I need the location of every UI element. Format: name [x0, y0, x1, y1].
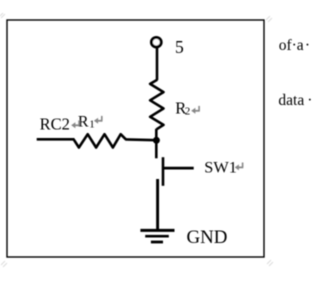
svg-text:GND: GND	[187, 227, 228, 248]
svg-text:2: 2	[185, 105, 191, 117]
svg-text:SW1: SW1	[204, 158, 237, 177]
svg-text:5: 5	[175, 37, 184, 57]
svg-text:RC2: RC2	[40, 114, 70, 133]
svg-text:1: 1	[89, 118, 95, 130]
svg-text:data ·: data ·	[278, 92, 312, 109]
svg-text:of·a ·: of·a ·	[279, 37, 310, 54]
